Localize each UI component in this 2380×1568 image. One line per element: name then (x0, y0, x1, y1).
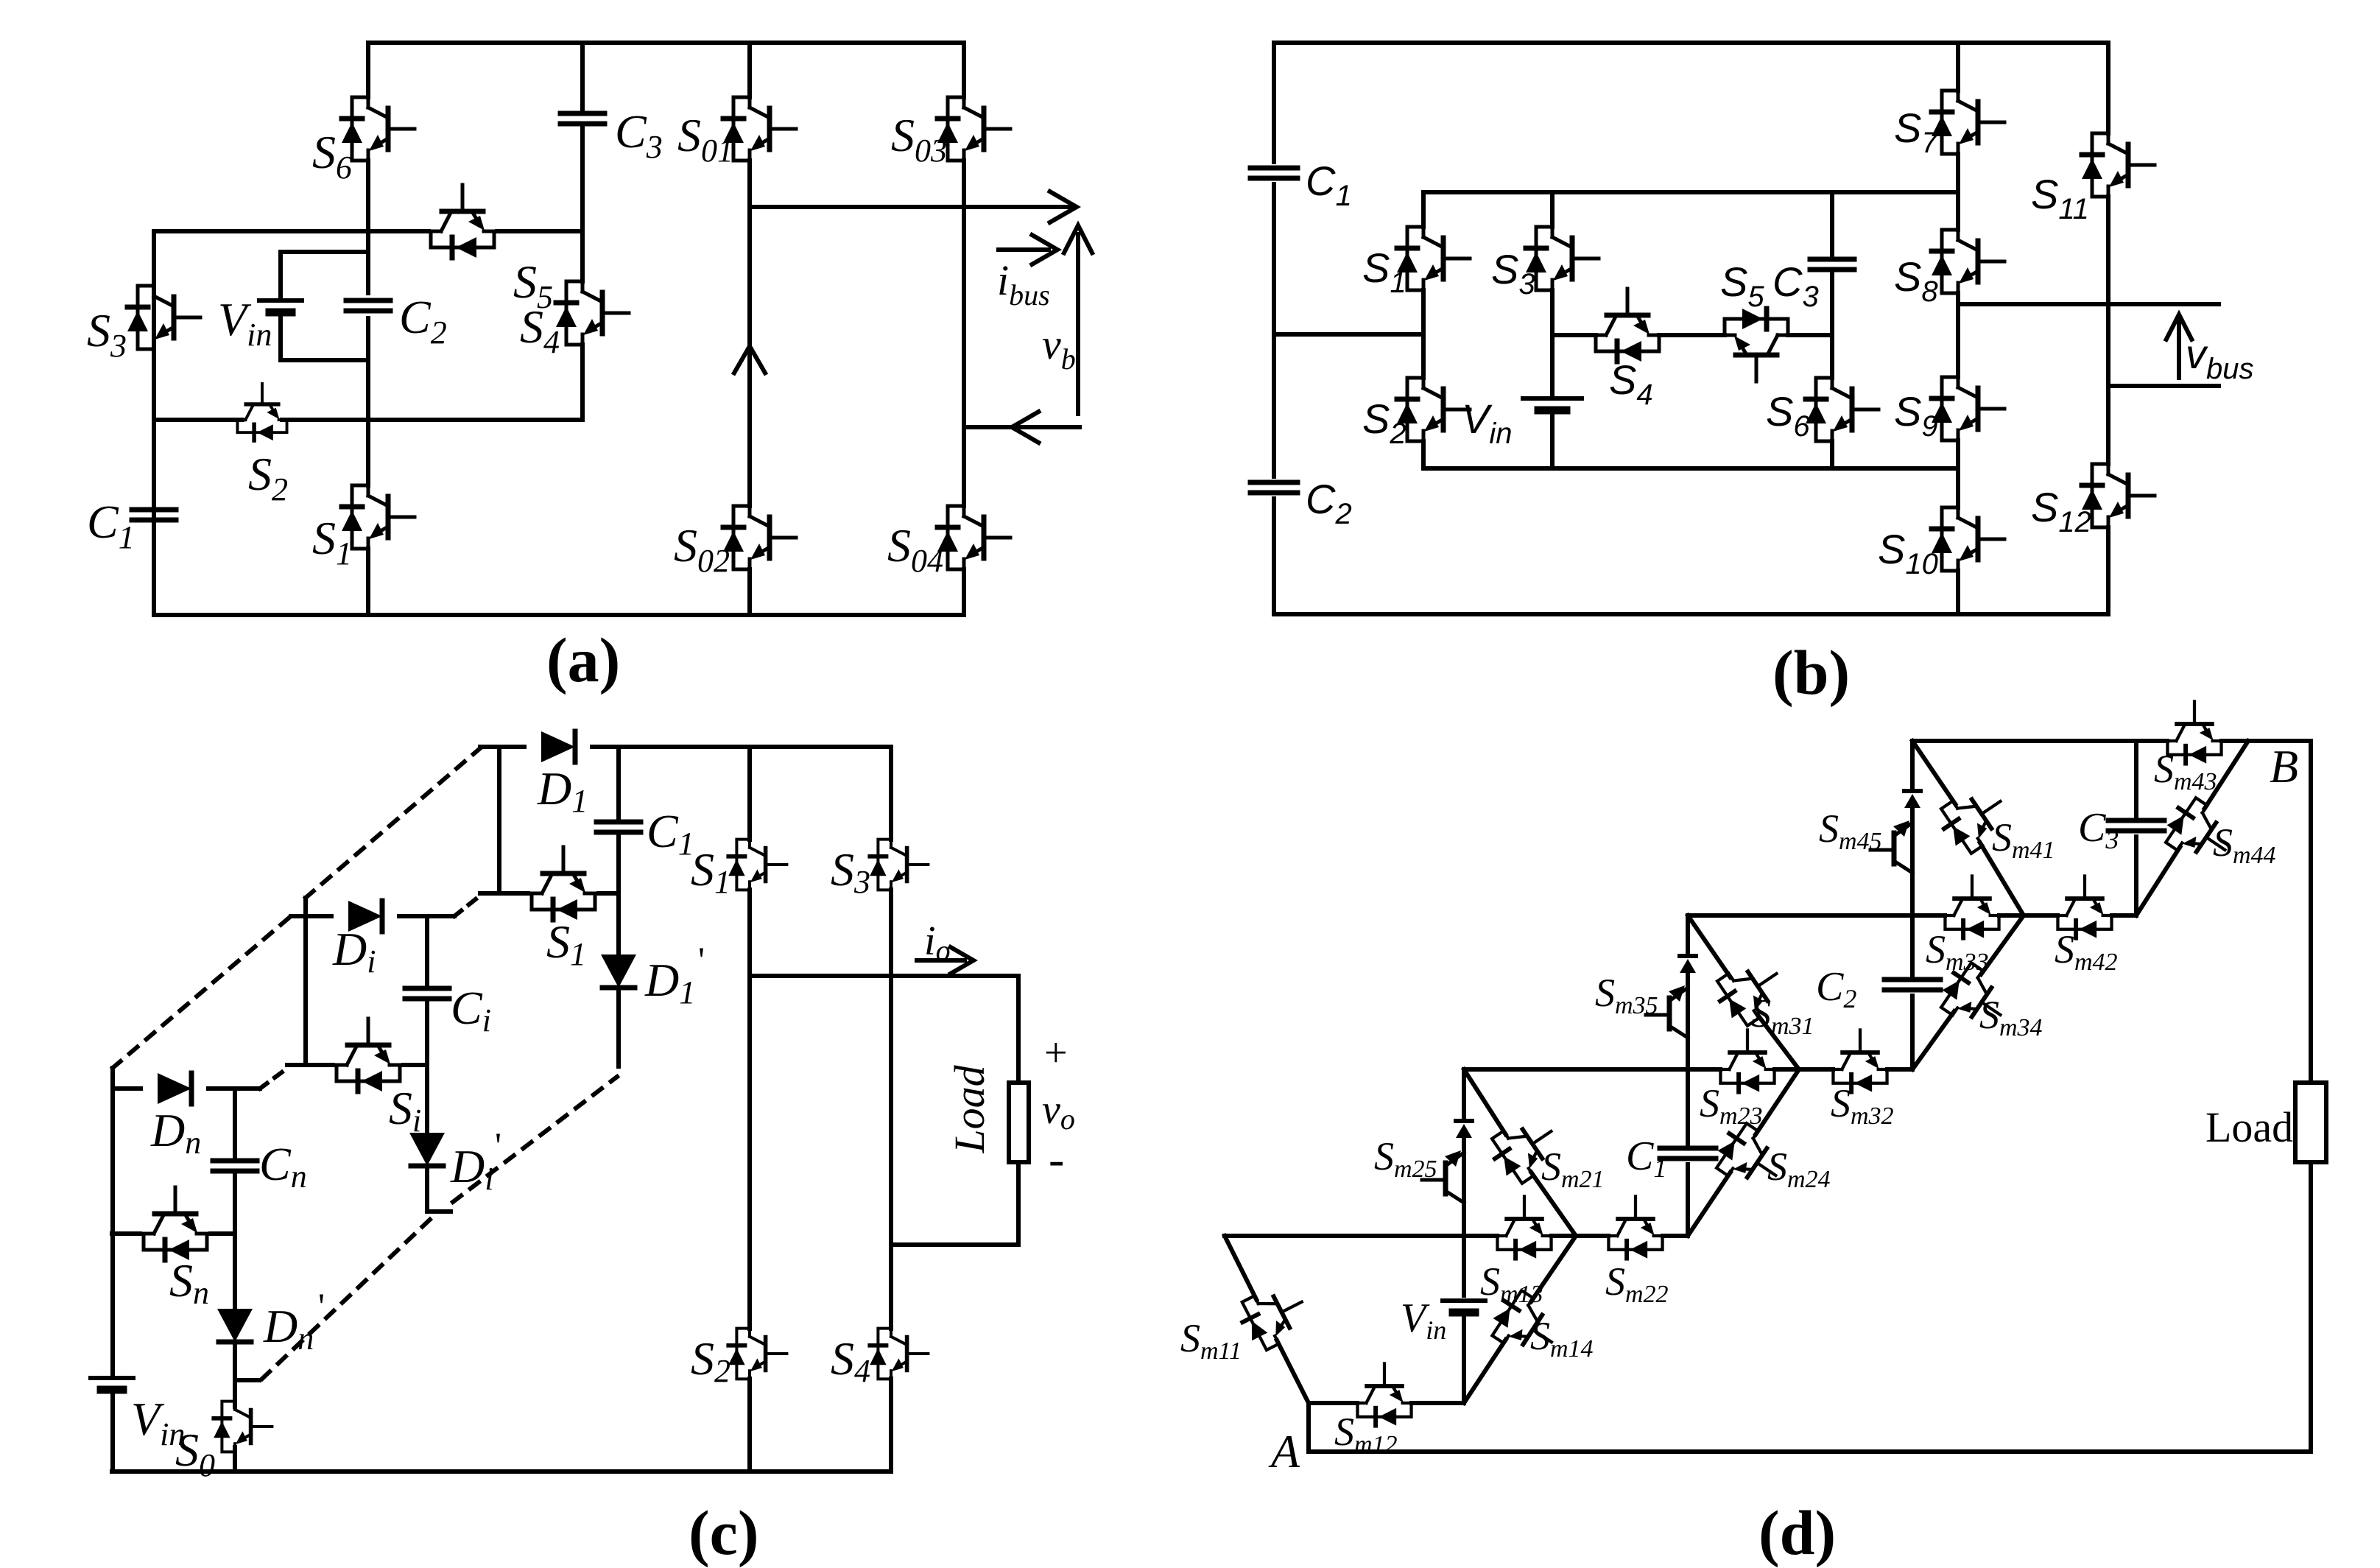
wire cell2 left slant (d) (1464, 1069, 1576, 1236)
wire branch S7-S10 (b) (1956, 43, 1960, 614)
svg-text:': ' (698, 939, 705, 980)
transistor S4 (b) (1596, 289, 1659, 362)
transistor Sm12 (d) (1357, 1363, 1411, 1425)
wire cell1 left slant (d) (1225, 1236, 1309, 1403)
transistor S10 (b) (1932, 507, 2004, 571)
load resistor (d) (2295, 1083, 2326, 1162)
svg-text:': ' (495, 1125, 501, 1166)
wire branch S1-S2 bridge (c) (747, 747, 752, 1472)
wire output upper (a) (750, 205, 1071, 209)
arrowhead output upper (a) (1050, 191, 1077, 222)
wire rail cell 1 (c) (497, 747, 501, 893)
arrow ibus (a) (999, 247, 1049, 252)
diode Di' (c) (409, 1133, 445, 1166)
wire output lower (a) (964, 425, 1080, 429)
transistor S1 (a) (342, 485, 415, 549)
wire mid rail (b) (1274, 332, 1423, 337)
transistor Sm43 (d) (2167, 701, 2221, 763)
svg-text:Load: Load (946, 1064, 993, 1153)
dashed link rail-to-D1 (c) (306, 748, 480, 898)
capacitor C1 (a) (132, 510, 176, 520)
transistor Sm45 (d) (1904, 791, 1920, 808)
transistor S8 (b) (1932, 230, 2004, 293)
wire cell1 right slant (d) (1464, 1236, 1576, 1403)
wire branch C3-S4 (a) (580, 43, 585, 420)
arrowhead output lower (a) (1012, 412, 1038, 443)
transistor S7 (b) (1932, 91, 2004, 154)
wire V1 (d) (1462, 1069, 1466, 1403)
battery Vin (a) (259, 300, 302, 312)
transistor S3 bridge (c) (870, 840, 928, 890)
transistor Sm13 (d) (1497, 1196, 1551, 1258)
svg-text:A: A (1268, 1425, 1300, 1477)
transistor Sm35 (d) (1680, 956, 1696, 973)
wire node A stub (d) (1306, 1403, 1311, 1452)
load resistor (c) (1009, 1083, 1029, 1162)
transistor Sm25 (d) (1456, 1121, 1472, 1138)
dashed link Dnp-to-Dip (c) (262, 1215, 434, 1379)
svg-text:': ' (318, 1285, 325, 1326)
battery Vin (c) (91, 1378, 133, 1390)
transistor S02 (a) (723, 506, 796, 569)
capacitor C1 (b) (1250, 168, 1298, 178)
transistor Sm11 (d) (1234, 1278, 1314, 1354)
wire branch S01-S02 (a) (747, 43, 752, 615)
svg-text:B: B (2270, 740, 2298, 792)
wire branch S3-Vin (b) (1550, 192, 1555, 468)
wire V3 (d) (1910, 741, 1915, 1069)
wire top rail (a) (368, 41, 964, 45)
transistor S4 bridge (c) (870, 1329, 928, 1379)
capacitor C1 (d) (1660, 1148, 1716, 1159)
arrow io (c) (917, 958, 965, 963)
transistor S2 (a) (237, 384, 286, 440)
transistor S3 (a) (127, 286, 200, 349)
transistor S1 bridge (c) (728, 840, 786, 890)
transistor Sm24 (d) (1709, 1119, 1791, 1198)
wire cell4 right slant (d) (2136, 741, 2248, 915)
wire V2 (d) (1686, 915, 1690, 1236)
transistor S5 (a) (431, 185, 494, 258)
wire cell2 right slant (d) (1688, 1069, 1799, 1236)
wire top rail (c) (480, 745, 891, 749)
transistor Sm44 (d) (2158, 793, 2240, 873)
dashed jog Di-to-S1 (c) (454, 896, 480, 916)
wire mid line (b) (1552, 333, 1832, 337)
transistor Sn (c) (112, 1231, 235, 1236)
transistor S1 cell (c) (480, 891, 619, 896)
wire branch Cn (c) (233, 1089, 237, 1401)
transistor S11 (b) (2082, 133, 2155, 197)
transistor S6 (b) (1806, 378, 1879, 441)
transistor S3 (b) (1526, 227, 1599, 290)
wire right rail (d) (2309, 741, 2313, 1452)
transistor S2 (b) (1397, 378, 1470, 441)
dashed jog Dn-to-Si (c) (260, 1067, 289, 1089)
wire bus lower (b) (2108, 384, 2219, 388)
capacitor C1 (c) (596, 822, 641, 832)
wire L4 (d) (1912, 739, 2311, 743)
transistor Sm23 (d) (1720, 1030, 1774, 1091)
wire cell1 bottom (d) (1309, 1401, 1464, 1405)
transistor S4 (a) (556, 281, 629, 345)
svg-text:(d): (d) (1758, 1497, 1836, 1568)
transistor Sm22 (d) (1608, 1196, 1662, 1258)
svg-text:Load: Load (2205, 1103, 2293, 1151)
wire branch C1 (c) (616, 747, 621, 1066)
wire V4 (d) (2134, 741, 2138, 915)
transistor Sm32 (d) (1833, 1030, 1887, 1091)
wire outer rect (b) (1274, 43, 2108, 614)
wire rail cell i (c) (303, 898, 308, 1064)
battery Vin (d) (1443, 1301, 1485, 1312)
wire inner bottom rail (b) (1423, 466, 1958, 471)
transistor S6 (a) (342, 97, 415, 161)
wire cell4 left slant (d) (1912, 741, 2024, 915)
transistor S5 (b) (1725, 309, 1788, 382)
battery Vin (b) (1523, 398, 1582, 410)
transistor S0 (c) (233, 1401, 237, 1472)
wire L2 (d) (1464, 1067, 1912, 1072)
dashed link rail-to-Di (c) (113, 916, 291, 1068)
wire branch Ci (c) (425, 916, 429, 1212)
wire load branch (c) (891, 976, 1018, 1245)
arrow up on branch (a) (734, 346, 765, 373)
wire left rail (b) (1272, 43, 1276, 614)
node stub (c) cell i (427, 1209, 451, 1214)
wire bottom rail (a) (154, 613, 964, 617)
capacitor C2 (b) (1250, 482, 1298, 493)
wire branch C3-S6 (b) (1830, 192, 1834, 468)
diode Di (c) (291, 914, 454, 918)
transistor S9 (b) (1932, 377, 2004, 440)
transistor S12 (b) (2082, 464, 2155, 527)
wire left rail (a) (152, 231, 156, 615)
transistor Sm31 (d) (1710, 952, 1792, 1031)
transistor Sm21 (d) (1485, 1109, 1566, 1189)
svg-text:-: - (1049, 1133, 1064, 1185)
diode D1 (c) (541, 731, 575, 762)
dashed link Dip-to-D1p (c) (453, 1077, 617, 1202)
wire cell3 left slant (d) (1688, 915, 1799, 1069)
transistor Sm42 (d) (2057, 876, 2111, 938)
capacitor C2 (a) (346, 300, 390, 311)
wire output mid (c) (750, 974, 1018, 978)
transistor S03 (a) (937, 97, 1010, 161)
wire bus upper (b) (1958, 302, 2219, 306)
transistor S2 bridge (c) (728, 1329, 786, 1379)
svg-text:+: + (1044, 1030, 1068, 1076)
capacitor C2 (d) (1884, 980, 1940, 990)
wire L3 (d) (1688, 913, 2136, 918)
wire branch S1-S2 (b) (1421, 192, 1426, 468)
transistor Sm14 (d) (1485, 1286, 1566, 1365)
wire branch S3-S4 bridge (c) (889, 747, 893, 1472)
arrow vbus (b) (2177, 322, 2181, 378)
diode Dn (c) (113, 1086, 260, 1091)
capacitor C3 (b) (1810, 259, 1854, 270)
wire bottom rail (d) (1309, 1449, 2311, 1454)
svg-text:(c): (c) (689, 1497, 758, 1568)
capacitor Ci (c) (405, 988, 449, 999)
svg-text:(b): (b) (1772, 637, 1850, 708)
wire L1 (d) (1225, 1234, 1688, 1238)
transistor S04 (a) (937, 506, 1010, 569)
wire inner top rail (b) (1423, 190, 1958, 194)
wire horizontal y=314 (a) (154, 229, 582, 233)
wire horizontal y=570 (a) (154, 418, 582, 422)
wire branch S03-S04 (a) (962, 43, 966, 615)
transistor S1 (b) (1397, 227, 1470, 290)
wire branch S11-S12 (b) (2106, 43, 2110, 614)
transistor S01 (a) (723, 97, 796, 161)
transistor Sm41 (d) (1934, 779, 2015, 859)
wire bottom rail (c) (112, 1469, 891, 1474)
diode D1' (c) (601, 954, 636, 988)
transistor Sm34 (d) (1934, 958, 2015, 1038)
transistor Si (c) (287, 1063, 427, 1067)
capacitor C3 (d) (2108, 820, 2164, 831)
capacitor C3 (a) (560, 113, 605, 124)
node stub (c) cell n (235, 1378, 259, 1382)
svg-text:(a): (a) (546, 625, 620, 695)
transistor Sm33 (d) (1945, 876, 1999, 938)
arrow vb (a) (1076, 234, 1080, 414)
wire left rail (c) (110, 1068, 115, 1472)
capacitor Cn (c) (213, 1161, 257, 1171)
wire Vin loop (a) (281, 252, 368, 360)
wire branch S6-C2-S1 (a) (366, 43, 370, 615)
wire cell3 right slant (d) (1912, 915, 2024, 1069)
diode Dn' (c) (217, 1309, 253, 1342)
